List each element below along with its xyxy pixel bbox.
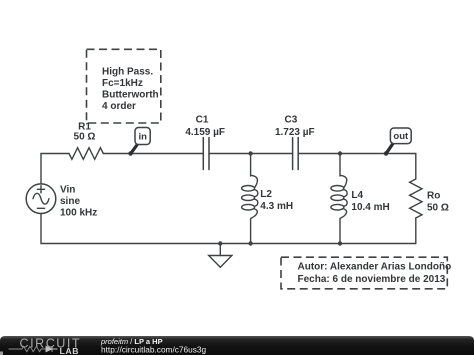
wire: node A to C3 left plate (251, 153, 293, 155)
svg-text:in: in (138, 132, 147, 143)
svg-text:4.3 mH: 4.3 mH (260, 201, 293, 212)
svg-text:C1: C1 (196, 115, 209, 126)
wire: L4 bottom to bottom rail (339, 219, 341, 244)
wire: C3 right plate to node B (298, 153, 340, 155)
flag in (131, 128, 150, 154)
capacitor C3 (293, 138, 299, 170)
svg-text:50 Ω: 50 Ω (427, 203, 449, 214)
svg-text:R1: R1 (78, 121, 91, 132)
svg-text:sine: sine (60, 196, 80, 207)
svg-text:1.723 µF: 1.723 µF (275, 127, 315, 138)
svg-text:out: out (393, 131, 409, 142)
svg-text:100 kHz: 100 kHz (60, 207, 97, 218)
svg-text:L2: L2 (260, 189, 272, 200)
svg-text:Fc=1kHz: Fc=1kHz (102, 78, 143, 89)
svg-text:Butterworth: Butterworth (102, 90, 159, 101)
wire: bottom rail and left leg up to Vin- (41, 214, 416, 244)
svg-text:50 Ω: 50 Ω (74, 132, 96, 143)
svg-text:C3: C3 (285, 115, 298, 126)
capacitor C1 (203, 138, 209, 170)
wire: node A down to L2 (250, 154, 252, 177)
junction: node B (C3/L4/out) (338, 151, 342, 155)
wire: Vin+ up left rail to R1 left lead (41, 154, 69, 185)
svg-text:Vin: Vin (60, 184, 75, 195)
svg-text:4.159 µF: 4.159 µF (185, 127, 225, 138)
svg-text:High Pass.: High Pass. (102, 67, 153, 78)
svg-text:Autor: Alexander Arias Londoño: Autor: Alexander Arias Londoño (298, 262, 452, 273)
resistor Ro (410, 179, 422, 218)
junction: L4 bottom (338, 241, 342, 245)
resistor R1 (69, 148, 103, 160)
svg-text:http://circuitlab.com/c76us3g: http://circuitlab.com/c76us3g (101, 345, 207, 355)
junction: node out (384, 151, 389, 156)
svg-text:4 order: 4 order (102, 101, 136, 112)
svg-text:LAB: LAB (60, 346, 80, 355)
voltage source V1 (Vin) (26, 184, 56, 214)
annotation box: Autor/Fecha (281, 257, 451, 289)
wire: node in to C1 left plate (131, 153, 204, 155)
wire: R1 to node in (103, 153, 130, 155)
wire: node B down to L4 (339, 154, 341, 177)
svg-text:10.4 mH: 10.4 mH (351, 202, 389, 213)
footer bar (0, 336, 474, 355)
svg-text:L4: L4 (351, 190, 363, 201)
inductor L4 (331, 175, 347, 218)
wire: C1 right plate to node A (209, 153, 251, 155)
footer corner notch (0, 352, 3, 355)
junction: L2 bottom (248, 241, 252, 245)
annotation box: High Pass (87, 49, 161, 123)
svg-text:Fecha: 6 de noviembre de 2013: Fecha: 6 de noviembre de 2013 (298, 274, 446, 285)
svg-text:Ro: Ro (427, 191, 440, 202)
wire: L2 bottom to bottom rail (250, 219, 252, 244)
ground (209, 244, 232, 268)
flag out (386, 128, 411, 153)
wire: Ro bottom lead to bottom rail (415, 218, 417, 244)
inductor L2 (242, 175, 258, 218)
wire: node B to node out to top-right corner down to Ro (340, 154, 416, 180)
logo wire + resistor + diode (9, 346, 58, 351)
junction: node in (128, 151, 133, 156)
junction: node A (C1/C3/L2) (248, 151, 252, 155)
junction: ground on bottom rail (218, 241, 222, 245)
